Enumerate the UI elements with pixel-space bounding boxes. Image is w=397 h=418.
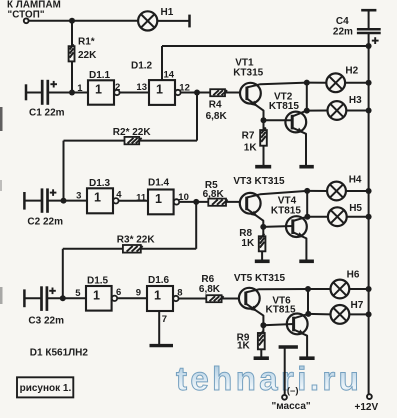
wire xyxy=(347,216,369,218)
resistor R2 xyxy=(125,137,142,144)
wire xyxy=(261,251,263,259)
label H4 xyxy=(349,174,362,185)
label VT5 KT315 xyxy=(234,273,286,284)
wire VT2 collector xyxy=(292,111,307,117)
pin 3 label xyxy=(76,190,81,201)
svg-text:H3: H3 xyxy=(349,95,362,106)
svg-text:8: 8 xyxy=(177,287,182,298)
svg-text:KT815: KT815 xyxy=(269,101,299,112)
resistor R5 xyxy=(208,199,227,206)
ground VT4 emitter xyxy=(299,259,314,263)
label R7 xyxy=(242,131,255,142)
svg-text:C2 22m: C2 22m xyxy=(27,216,63,227)
svg-text:14: 14 xyxy=(164,70,175,81)
wire xyxy=(345,82,369,84)
capacitor C1 input stub xyxy=(25,84,28,100)
wire pin 14 xyxy=(161,46,163,80)
transistor VT1 xyxy=(240,83,261,104)
wire xyxy=(118,297,148,299)
svg-text:5: 5 xyxy=(75,288,81,299)
svg-text:1: 1 xyxy=(156,83,163,97)
svg-text:(–): (–) xyxy=(287,385,299,396)
svg-text:C3 22m: C3 22m xyxy=(28,315,64,326)
node VT1 collector/H2 xyxy=(304,80,310,86)
node H6/+12V rail xyxy=(366,286,372,292)
wire xyxy=(368,33,370,46)
svg-text:KT815: KT815 xyxy=(266,304,296,315)
ground R7 xyxy=(255,165,271,169)
C4 value 22m xyxy=(333,27,353,38)
wire VT5 emitter xyxy=(246,304,264,326)
wire xyxy=(263,225,293,228)
wire xyxy=(307,82,327,84)
wire xyxy=(48,92,88,94)
node VT2 collector/H3 xyxy=(304,108,310,114)
svg-text:KT815: KT815 xyxy=(271,205,301,216)
R9 value 1K xyxy=(237,340,251,351)
wire xyxy=(47,297,86,299)
lamp H3 xyxy=(328,101,347,120)
resistor R1 xyxy=(69,44,75,61)
figure caption box xyxy=(17,377,73,397)
svg-text:22K: 22K xyxy=(78,50,97,61)
svg-text:6,8K: 6,8K xyxy=(203,189,225,200)
wire xyxy=(308,313,330,316)
svg-text:D1.1: D1.1 xyxy=(89,70,111,81)
wire xyxy=(196,93,198,141)
resistor R6 xyxy=(206,295,223,302)
wire VT6 emitter xyxy=(294,330,308,357)
svg-text:13: 13 xyxy=(136,82,147,93)
gate D1.1 xyxy=(88,80,120,104)
pin 5 label xyxy=(75,288,81,299)
resistor R3 xyxy=(123,245,143,253)
svg-text:рисунок 1.: рисунок 1. xyxy=(20,383,72,394)
svg-text:R3* 22K: R3* 22K xyxy=(117,235,156,246)
wire xyxy=(48,200,88,202)
scan smudge xyxy=(0,180,2,191)
ground 'масса' bar xyxy=(279,345,298,348)
wire xyxy=(284,348,286,394)
label R2* 22K xyxy=(113,127,152,138)
wire xyxy=(346,110,368,112)
terminal К лампам стоп xyxy=(24,18,29,23)
node VT3 emitter/VT4 base/R8 xyxy=(260,224,266,230)
R8 value 1K xyxy=(241,238,255,249)
svg-text:R7: R7 xyxy=(242,131,255,142)
terminal масса (-) xyxy=(282,395,287,400)
wire xyxy=(63,248,196,250)
label R4 xyxy=(209,100,222,111)
svg-text:6,8K: 6,8K xyxy=(199,284,221,295)
label H3 xyxy=(349,95,362,106)
svg-text:9: 9 xyxy=(136,287,141,298)
label D1.4 xyxy=(148,178,170,189)
svg-text:4: 4 xyxy=(116,189,122,200)
label VT2 xyxy=(269,91,299,112)
svg-text:1: 1 xyxy=(93,288,100,302)
wire xyxy=(71,61,73,92)
svg-text:KT315: KT315 xyxy=(233,68,263,79)
label R5 xyxy=(205,180,218,191)
terminal +12V xyxy=(367,394,372,399)
svg-text:H5: H5 xyxy=(349,203,362,214)
wire xyxy=(264,119,293,121)
svg-text:R2* 22K: R2* 22K xyxy=(113,127,152,138)
wire xyxy=(307,190,327,192)
capacitor C4 top terminal bar xyxy=(361,9,376,12)
svg-text:R4: R4 xyxy=(209,100,222,111)
label C4 xyxy=(336,16,349,27)
svg-text:2: 2 xyxy=(115,82,120,93)
node D1.4 out/R3 xyxy=(193,199,199,205)
net 'К ЛАМПАМ СТОП' label xyxy=(7,0,61,20)
label масса xyxy=(272,401,311,412)
svg-text:1: 1 xyxy=(154,288,161,302)
label C3 22m xyxy=(28,315,64,326)
label VT6 xyxy=(266,295,296,315)
label D1.5 xyxy=(87,276,109,287)
wire VT4 collector xyxy=(293,217,308,221)
wire xyxy=(180,201,241,203)
C2 polarity + xyxy=(50,189,57,196)
svg-text:1K: 1K xyxy=(237,340,251,351)
ground R9 xyxy=(254,356,269,360)
svg-text:D1 К561ЛН2: D1 К561ЛН2 xyxy=(30,348,89,359)
ground VT6 emitter xyxy=(299,356,314,360)
resistor R4 xyxy=(210,89,227,96)
label H5 xyxy=(349,203,362,214)
pin 1 label xyxy=(77,83,83,94)
svg-text:C1 22m: C1 22m xyxy=(29,107,65,118)
resistor R8 xyxy=(259,234,266,252)
R7 value 1K xyxy=(244,143,258,154)
node C4/+12V rail xyxy=(366,43,372,49)
node D1.2 out/R2 xyxy=(194,90,200,96)
C4 polarity + xyxy=(372,37,379,44)
svg-text:H1: H1 xyxy=(161,7,174,18)
lamp H6 xyxy=(331,280,350,299)
svg-text:"масса": "масса" xyxy=(272,401,311,412)
label D1 type xyxy=(30,348,89,359)
svg-text:6,8K: 6,8K xyxy=(206,111,228,122)
scan smudge xyxy=(0,107,3,131)
wire xyxy=(24,297,41,299)
wire xyxy=(349,288,368,290)
label R6 xyxy=(201,274,214,285)
node C1/R1/D1.1 input xyxy=(69,90,75,96)
R1 value 22K xyxy=(78,50,97,61)
wire xyxy=(263,146,265,166)
wire xyxy=(119,200,148,202)
label R3* 22K xyxy=(117,235,156,246)
label R9 xyxy=(237,333,250,344)
label D1.6 xyxy=(148,275,170,286)
ground pin 7 xyxy=(150,344,174,347)
svg-text:1: 1 xyxy=(95,83,102,97)
label H6 xyxy=(347,269,360,280)
wire VT2 emitter xyxy=(292,128,306,166)
wire Vdd rail (pin14 to C4) xyxy=(162,45,369,47)
label VT1 xyxy=(233,58,263,79)
pin 7 label xyxy=(162,314,167,325)
svg-text:tehnari.ru: tehnari.ru xyxy=(176,360,362,397)
lamp H4 xyxy=(327,182,346,201)
wire xyxy=(29,20,139,22)
svg-text:H4: H4 xyxy=(349,174,362,185)
label D1.1 xyxy=(89,70,111,81)
watermark tehnari.ru xyxy=(176,360,362,397)
wire end bar xyxy=(188,15,191,28)
label +12V xyxy=(355,402,379,413)
transistor VT4 xyxy=(286,216,307,237)
wire xyxy=(157,20,189,22)
label VT3 KT315 xyxy=(233,176,285,187)
ground VT2 emitter xyxy=(299,165,313,169)
node VT5 emitter/VT6 base/R9 xyxy=(260,322,266,328)
label R1 xyxy=(78,37,95,48)
wire xyxy=(346,190,369,192)
wire xyxy=(306,191,308,217)
label C2 22m xyxy=(27,216,63,227)
node VT4 collector/H5 xyxy=(304,214,310,220)
wire xyxy=(195,202,197,249)
label C1 22m xyxy=(29,107,65,118)
wire xyxy=(349,313,368,315)
pin 2 label xyxy=(115,82,120,93)
svg-text:VT3 KT315: VT3 KT315 xyxy=(233,176,285,187)
wire xyxy=(71,21,73,46)
wire xyxy=(262,227,264,236)
label H1 xyxy=(161,7,174,18)
svg-text:D1.3: D1.3 xyxy=(89,178,111,189)
label H2 xyxy=(345,65,358,76)
label VT4 xyxy=(271,196,301,217)
node stop-line/R1 xyxy=(69,18,75,24)
resistor R7 xyxy=(260,128,267,146)
capacitor C2 xyxy=(42,188,48,212)
wire xyxy=(368,10,370,29)
lamp H5 xyxy=(328,207,347,226)
pin 10 label xyxy=(178,192,189,203)
pin 12 label xyxy=(179,83,190,94)
node VT3 collector/H4 xyxy=(304,188,310,194)
wire VT1 collector xyxy=(247,83,307,88)
wire xyxy=(263,120,265,130)
svg-text:D1.4: D1.4 xyxy=(148,178,170,189)
gate D1.4 xyxy=(148,190,179,215)
wire xyxy=(306,83,308,111)
wire xyxy=(263,324,293,325)
wire xyxy=(120,92,149,94)
capacitor C3 input stub xyxy=(23,289,26,307)
svg-text:1K: 1K xyxy=(241,238,255,249)
svg-text:D1.6: D1.6 xyxy=(148,275,170,286)
svg-text:R1*: R1* xyxy=(78,37,95,48)
pin 4 label xyxy=(116,189,122,200)
node C3/R3/D1.5 input xyxy=(60,295,66,301)
wire VT4 emitter xyxy=(293,232,307,260)
svg-text:VT5 KT315: VT5 KT315 xyxy=(234,273,286,284)
svg-text:1: 1 xyxy=(77,83,83,94)
svg-text:3: 3 xyxy=(76,190,81,201)
pin 8 label xyxy=(177,287,182,298)
wire xyxy=(260,349,262,356)
node H4/+12V rail xyxy=(366,188,372,194)
svg-text:+12V: +12V xyxy=(355,402,379,413)
pin 13 label xyxy=(136,82,147,93)
wire xyxy=(62,249,64,298)
pin 9 label xyxy=(136,287,141,298)
wire xyxy=(307,110,328,112)
resistor R9 xyxy=(258,330,265,349)
R6 value 6,8K xyxy=(199,284,221,295)
svg-text:22m: 22m xyxy=(333,27,353,38)
svg-text:6: 6 xyxy=(116,287,121,298)
transistor VT2 xyxy=(285,112,306,133)
wire xyxy=(262,325,264,333)
C3 polarity + xyxy=(49,288,56,295)
transistor VT3 xyxy=(240,193,261,214)
pin 6 label xyxy=(116,287,121,298)
wire VT5 collector xyxy=(246,289,308,292)
wire xyxy=(181,92,240,94)
capacitor C3 xyxy=(42,286,47,311)
gate D1.6 xyxy=(147,286,179,311)
pin 11 label xyxy=(136,193,147,204)
pin 14 label xyxy=(164,70,175,81)
wire xyxy=(308,288,331,290)
wire xyxy=(63,141,65,201)
capacitor C4 xyxy=(357,29,381,33)
svg-text:H2: H2 xyxy=(345,65,358,76)
node H3/+12V rail xyxy=(366,108,372,114)
svg-text:1: 1 xyxy=(155,192,162,206)
lamp H1 xyxy=(138,11,157,30)
wire VT1 emitter xyxy=(247,99,264,121)
svg-text:1: 1 xyxy=(94,191,101,205)
wire pin 7 xyxy=(158,311,160,344)
node H5/+12V rail xyxy=(366,214,372,220)
node VT1 emitter/VT2 base/R7 xyxy=(261,117,267,123)
svg-text:1K: 1K xyxy=(244,143,258,154)
transistor VT6 xyxy=(287,314,308,335)
wire xyxy=(179,298,239,300)
gate D1.3 xyxy=(87,188,119,213)
svg-text:7: 7 xyxy=(162,314,167,325)
node VT6 collector/H7 xyxy=(305,311,311,317)
wire +12V rail xyxy=(368,46,370,394)
capacitor C1 xyxy=(42,80,48,105)
label D1.3 xyxy=(89,178,111,189)
label H7 xyxy=(351,300,364,311)
svg-text:11: 11 xyxy=(136,193,147,204)
svg-text:H7: H7 xyxy=(351,300,364,311)
node H2/+12V rail xyxy=(366,80,372,86)
wire xyxy=(24,200,42,202)
transistor VT5 xyxy=(239,288,260,309)
wire xyxy=(64,140,198,142)
wire xyxy=(307,289,309,314)
scan smudge xyxy=(0,287,3,304)
wire VT3 collector xyxy=(247,191,308,198)
wire xyxy=(26,92,42,94)
C1 polarity + xyxy=(50,81,57,88)
lamp H2 xyxy=(326,73,345,92)
svg-text:D1.5: D1.5 xyxy=(87,276,109,287)
gate D1.5 xyxy=(86,286,117,311)
label R8 xyxy=(239,228,252,239)
svg-text:D1.2: D1.2 xyxy=(131,60,153,71)
svg-text:H6: H6 xyxy=(347,269,360,280)
label (-) xyxy=(287,385,299,396)
node H7/+12V rail xyxy=(366,311,372,317)
wire xyxy=(307,216,328,218)
wire VT6 collector xyxy=(294,314,309,318)
ground R8 xyxy=(255,259,270,263)
wire VT3 emitter xyxy=(247,209,264,227)
lamp H7 xyxy=(331,305,350,324)
gate D1.2 xyxy=(149,80,181,105)
label D1.2 xyxy=(131,60,153,71)
capacitor C2 input stub xyxy=(23,192,26,210)
node VT5 collector/H6 xyxy=(305,286,311,292)
R5 value 6,8K xyxy=(203,189,225,200)
R4 value 6,8K xyxy=(206,111,228,122)
node C2/R2/D1.3 input xyxy=(61,198,67,204)
